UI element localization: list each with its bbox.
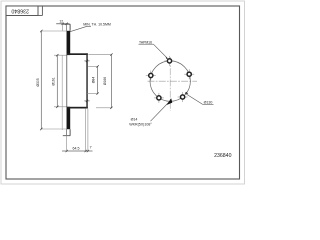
friction ring outline left face: [66, 31, 68, 129]
hat face bottom extension: [96, 107, 112, 109]
bore top extension: [88, 65, 98, 67]
friction ring section bottom: [67, 107, 70, 129]
bolt hole top: [167, 59, 171, 63]
dim line O84: [97, 66, 99, 93]
bottom OD extension line: [41, 128, 67, 130]
bolt circle: [150, 61, 190, 101]
svg-text:12: 12: [59, 19, 63, 23]
svg-text:Ø84: Ø84: [92, 77, 96, 84]
top OD extension line: [41, 30, 67, 32]
dim 12 extension: [62, 24, 64, 31]
main frame: [6, 6, 240, 179]
bolt hole upper-left: [149, 73, 153, 77]
svg-text:WKR(5X)108°: WKR(5X)108°: [129, 123, 152, 127]
hat face top extension: [88, 54, 111, 56]
projection line inner: [61, 55, 63, 130]
dim 12 ticks: [62, 23, 64, 25]
friction ring section top: [67, 31, 70, 55]
centerline horizontal: [148, 80, 198, 82]
bolt hole lower-left: [157, 96, 161, 100]
hat top wall: [67, 53, 88, 55]
title box top-left: [6, 6, 38, 16]
svg-text:236840: 236840: [11, 7, 29, 13]
OD bottom edge: [63, 135, 71, 137]
hat top extension: [54, 54, 67, 56]
bolt hole lower-right: [181, 95, 185, 99]
OD top chamfer verticals: [66, 24, 68, 31]
dim line O166: [110, 55, 112, 108]
dim line O161: [56, 55, 58, 107]
svg-text:Ø14: Ø14: [131, 118, 138, 122]
OD bottom chamfer verticals: [66, 129, 68, 136]
min thickness leader: [68, 26, 87, 32]
outer light border: [1, 1, 245, 184]
hat bottom wall: [67, 107, 88, 109]
dim line OD305: [40, 31, 42, 129]
svg-text:236840: 236840: [214, 153, 231, 159]
svg-text:Ø161: Ø161: [52, 77, 56, 85]
bolt hole upper-right: [187, 72, 191, 76]
bolt hole center marks on flange: [84, 60, 89, 62]
dim 12 line: [56, 23, 69, 25]
bottom height extensions: [66, 130, 68, 152]
svg-text:MIN. TH. 10.5MM: MIN. TH. 10.5MM: [83, 23, 111, 27]
svg-text:7: 7: [90, 145, 92, 149]
bottom dim line: [62, 150, 93, 152]
hat mounting flange: [86, 53, 88, 108]
svg-text:Ø130: Ø130: [204, 100, 213, 104]
bottom dim ticks: [66, 150, 68, 152]
centerline vertical: [169, 57, 171, 111]
svg-text:Ø305: Ø305: [36, 78, 40, 86]
bore bottom extension: [87, 93, 98, 95]
OD top edge: [63, 23, 71, 25]
svg-text:64.5: 64.5: [73, 146, 80, 150]
svg-text:Ø166: Ø166: [103, 77, 107, 85]
hat bottom extension: [54, 106, 67, 108]
hole center tick marks: [146, 56, 194, 103]
